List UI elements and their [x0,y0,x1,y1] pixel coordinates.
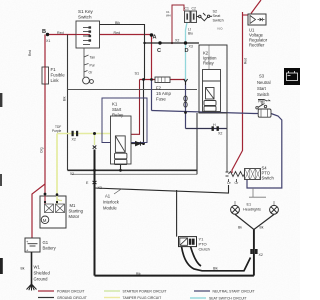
svg-text:Interlock: Interlock [103,200,120,205]
wire: yellow branch down from junction to connector E [94,134,96,146]
svg-text:Red: Red [244,58,248,64]
junction dot K1 contact drop on bus [119,169,122,172]
svg-text:Red: Red [57,31,64,35]
svg-text:PPS: PPS [258,100,266,104]
svg-text:C1: C1 [185,7,189,11]
svg-text:Neutral: Neutral [257,80,271,85]
svg-text:X2: X2 [218,132,222,136]
svg-text:M: M [43,218,47,223]
svg-text:Ground: Ground [34,277,49,282]
wire: gray vertical from K2 box bottom to PTO resistor connector [226,113,228,172]
svg-text:B: B [42,29,46,35]
wire: navy vertical x=185.5 from cyan junction down to H bend [185,81,187,129]
svg-text:X3: X3 [98,186,102,190]
wire: thick black ground drop x=94.5 to bottom bus [94,150,96,276]
wire: maroon fuse feed line through F2 [140,79,186,81]
svg-text:SEAT SWITCH CIRCUIT: SEAT SWITCH CIRCUIT [209,297,247,300]
voltage regulator U1 box with diode [248,14,266,25]
svg-text:X2: X2 [175,39,179,43]
PTO clutch Y1 box [179,237,197,247]
svg-text:K1: K1 [112,102,118,107]
svg-text:Red: Red [28,50,32,56]
wire: black vertical inside K2 from terminal line to inner relay [208,45,210,70]
start relay K1 navy outer box [102,98,147,143]
wire: thin link from yellow into K1 coil [111,134,119,139]
junction dot red at motor top [44,193,47,196]
svg-text:N.O.: N.O. [218,27,224,31]
wire: red right-side trunk from voltage regulator down to PTO switch [232,12,243,173]
svg-text:M1: M1 [70,203,76,208]
seat switch S2 connector plugs C1 C2 [185,11,197,23]
junction dot ground bus at x=94.5 [93,169,96,172]
key switch terminal ring connector [83,77,94,84]
wire: thick black interlock module ground bus horizontal [68,169,198,171]
svg-text:Blu: Blu [188,32,193,36]
svg-text:Switch: Switch [78,15,92,20]
svg-text:Org: Org [40,147,44,153]
wire: red diagonal entering voltage regulator from top edge [251,0,261,14]
legend row2: seat switch circuit cyan swatch [190,297,206,299]
connector X2 below headlights on ground drop [250,249,257,254]
junction dot navy crossing at x=185.5 [184,111,187,114]
wire: black C/D terminal line into ignition relay K2 [145,42,200,44]
junction dot yellow branch [93,132,96,135]
svg-text:A: A [153,35,157,41]
wire: headlight upper stubs and tie bar [235,188,274,206]
wire: red power horizontal from node B to node A [48,34,152,36]
wire: red branch down into starting motor solenoid [44,184,46,197]
wire: red diagonal from trunk to battery positive [32,184,45,238]
svg-text:Headlights: Headlights [243,208,261,212]
legend row1: power circuit red swatch [38,290,54,292]
junction dot maroon seat feed on C/D line [171,42,173,44]
svg-text:Tan: Tan [90,56,96,60]
svg-text:Seat: Seat [213,14,222,18]
wire: dark vertical from under key switch area down to module bus [67,35,69,171]
svg-text:X3: X3 [189,45,193,49]
legend row1: neutral start circuit navy swatch [194,290,210,292]
svg-text:TAMPER PLUG CIRCUIT: TAMPER PLUG CIRCUIT [123,296,162,300]
junction dot at C/D wire takeoff [143,42,145,44]
svg-text:G1: G1 [43,240,49,245]
wire: cyan seat switch wire down to fuse line junction [186,23,188,81]
svg-text:S2: S2 [213,10,218,14]
svg-text:Clutch: Clutch [199,247,210,252]
svg-text:Bk: Bk [260,226,264,230]
wire: interlock module top boundary line [68,89,198,91]
wire: black PTO feed from Or connector across to clutch drop [95,185,229,193]
svg-text:S3: S3 [259,74,265,79]
wire: dark vertical x=197 from K2 bottom to module bus [196,113,198,174]
svg-text:GROUND CIRCUIT: GROUND CIRCUIT [57,296,87,300]
svg-text:Bk: Bk [21,267,25,271]
svg-text:H: H [213,123,216,127]
neutral start switch S3 lever symbol [256,100,267,110]
svg-text:Bk: Bk [238,226,242,230]
svg-text:NEUTRAL START CIRCUIT: NEUTRAL START CIRCUIT [213,290,255,294]
wire: black wire from K1 relay contact right side with diode to fuse-line vertical [131,80,144,144]
svg-text:C2: C2 [192,7,196,11]
svg-text:WH: WH [166,14,171,18]
wire: thick black headlight ground vertical up to lamp V junction [253,230,255,276]
wire: K1 contacts drop to bus [120,165,122,171]
svg-text:Rectifier: Rectifier [249,43,265,48]
junction dot yellow at motor top [56,193,59,196]
wire: navy from S3 switch right side down the right side loop [247,114,282,189]
wire: navy/black H-X2 jumper to K2 right edge [186,128,228,130]
legend row2: ground circuit black swatch [38,297,54,299]
svg-text:Purple: Purple [52,129,61,133]
svg-text:E1: E1 [247,203,252,207]
svg-text:Red: Red [114,31,121,35]
svg-text:POWER CIRCUIT: POWER CIRCUIT [57,290,85,294]
svg-text:F2: F2 [156,86,162,91]
svg-text:Switch: Switch [262,176,275,181]
svg-text:Blk: Blk [115,21,120,25]
node B junction dot [46,33,49,36]
svg-text:Blk: Blk [136,272,141,276]
svg-text:X2: X2 [72,138,76,142]
fuse F2 15 Amp cartridge [155,77,170,83]
scan artifact streaks at left edge [0,93,2,107]
svg-text:Battery: Battery [43,246,57,251]
wire: maroon drop from fuse line into K1 relay coil [127,80,140,139]
wire: headlight V leads from lamps to junction [235,214,274,229]
wire: red stub from regulator left side to right trunk [243,14,249,16]
svg-text:Starting: Starting [69,209,84,214]
connector E/X3 on yellow-to-ground drop [93,146,97,149]
battery G1 [25,238,40,252]
wire: black drop from PTO feed down to Y1 clutch [176,190,178,237]
start relay K1 inner relay body [111,116,132,165]
neutral start switch S3 body box [258,109,271,117]
wire: thick black Y1 clutch leads to X2 connector [182,247,251,271]
Or Or terminal ticks under resistor [229,179,237,182]
black thumbnail block at right edge [284,68,300,85]
wire: red power vertical left trunk with fusible link run [44,35,46,185]
PTO switch S4 resistor zigzag [226,172,246,177]
wire: thick black bottom ground bus [95,275,254,277]
svg-text:D: D [185,48,189,54]
connector H/X2 on jumper wire [212,126,219,131]
svg-text:Pur: Pur [90,64,96,68]
svg-text:Blk: Blk [213,267,218,271]
node D junction dot [184,41,187,44]
node A junction dot [150,33,154,37]
connector X2 on yellow wire [72,131,79,136]
svg-text:S1: S1 [135,72,140,76]
wire: interlock module lower boundary line [72,173,197,175]
svg-text:S1 Key: S1 Key [78,9,94,14]
svg-text:15 Amp: 15 Amp [156,91,171,96]
wire: yellow tamper/starter wire horizontal into K1 [57,133,111,135]
seat switch S2 plunger symbol [197,13,213,21]
svg-text:A1: A1 [105,194,111,199]
legend row1: starter power circuit green swatch [104,290,120,292]
fusible link F1 [42,67,49,84]
svg-text:C: C [157,48,161,54]
connector Y-fork at cyan to fuse line junction [184,79,188,85]
shielded ground W1 symbol [27,284,37,291]
node C junction dot [158,41,161,44]
label A1 Interlock Module with pointer [114,189,122,195]
svg-text:Switch: Switch [213,19,224,23]
headlight lamp E1 left [231,205,240,214]
wire: navy neutral-start horizontal run to S3 switch [152,111,259,114]
svg-text:Start: Start [257,86,267,91]
wire: yellow vertical down to starting motor [56,134,58,197]
svg-text:Relay: Relay [112,113,124,118]
svg-text:X1: X1 [46,39,50,43]
svg-text:Blk: Blk [63,96,67,101]
svg-text:F1: F1 [51,67,57,72]
svg-text:STARTER POWER CIRCUIT: STARTER POWER CIRCUIT [123,290,167,294]
svg-text:W1: W1 [34,265,41,270]
svg-text:Link: Link [51,78,60,83]
svg-text:X2: X2 [259,253,263,257]
svg-text:Motor: Motor [69,214,80,219]
junction dot K1 black wire meet [142,142,145,145]
battery ground lead [31,252,33,284]
svg-text:Switch: Switch [257,92,270,97]
key switch S1 [76,21,100,48]
svg-text:Start: Start [112,107,122,112]
svg-text:Shielded: Shielded [34,271,51,276]
connector E-/X3 on thick ground drop [93,181,97,184]
wire: red vertical from node A down to fuse line [151,35,153,80]
junction dots on fuse line [142,78,145,81]
connector diamonds on navy vertical [184,96,187,107]
PTO switch S4 body with X cells [245,169,261,180]
headlight lamp E1 right [270,205,279,214]
ignition relay K2 inner relay body [203,70,221,112]
key switch S1 harness fan with Tan/Pur/Or leads [84,48,89,77]
svg-text:Fusible: Fusible [51,73,66,78]
wire: black key switch BLK output to the down turn [100,25,145,80]
starting motor M1 box [40,196,66,228]
legend row2: tamper plug circuit yellow swatch [104,297,120,299]
svg-text:Module: Module [103,206,117,211]
svg-text:Relay: Relay [203,61,215,66]
ignition relay K2 outer box [199,45,227,113]
wire: maroon seat-switch feed vertical at x=172 to node C/D line [172,5,184,43]
svg-text:Fuse: Fuse [156,97,166,102]
diode arrow on K1 output wire [136,142,141,146]
svg-text:52: 52 [70,172,74,176]
wire: navy neutral-start riser from fuse line junction [151,80,153,111]
